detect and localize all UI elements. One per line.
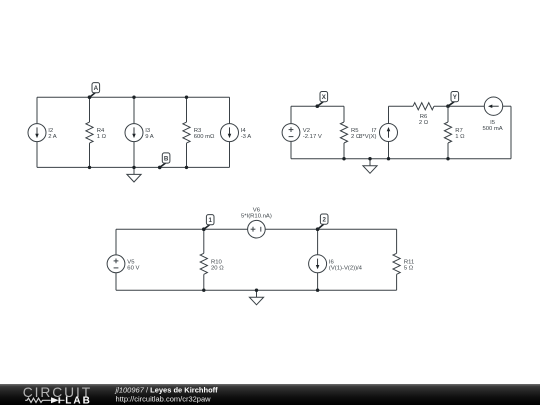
junction dots bottom rail (top-left) [88, 166, 188, 169]
label I2 value 2 A [48, 128, 57, 140]
junction dots bottom rail (bottom circuit) [202, 289, 319, 292]
svg-text:1 Ω: 1 Ω [455, 134, 465, 140]
wire: R7 branch leads [447, 106, 449, 159]
resistor R3 [183, 122, 190, 143]
svg-text:3*V(X): 3*V(X) [359, 134, 376, 140]
svg-text:500 mA: 500 mA [482, 126, 502, 132]
wire: I7 branch leads [388, 106, 390, 159]
current source I7 [380, 124, 398, 142]
label R6 value 2 Ω [419, 114, 429, 126]
CircuitLab logo [23, 385, 92, 405]
label V6 value 5*I(R10.nA) [241, 208, 272, 220]
wire: R3 branch leads [186, 97, 188, 167]
node X [316, 92, 328, 108]
junction dots top rail (top-left) [132, 96, 188, 99]
svg-text:(V(1)-V(2))/4: (V(1)-V(2))/4 [329, 265, 363, 271]
svg-text:20 Ω: 20 Ω [211, 265, 224, 271]
label R4 value 1 Ω [97, 128, 107, 140]
label R11 value 5 Ω [404, 259, 414, 271]
current source I3 [125, 124, 143, 142]
label R5 value 2 Ω [351, 128, 361, 140]
label I7 value 3*V(X) [359, 128, 376, 140]
wire: top rail of top-left circuit [37, 96, 230, 98]
ground (top-left circuit) [127, 167, 141, 182]
svg-text:9 A: 9 A [145, 134, 154, 140]
wire: I2 branch leads [36, 97, 38, 167]
current source I2 [28, 124, 46, 142]
wire: R5 branch leads [343, 106, 345, 159]
label R10 value 20 Ω [211, 259, 224, 271]
wire: I3 branch leads [133, 97, 135, 167]
svg-text:A: A [94, 85, 99, 92]
wire: top rail right of V6 [265, 228, 396, 230]
resistor R6 [413, 103, 434, 110]
svg-text:60 V: 60 V [127, 265, 139, 271]
resistor R4 [86, 122, 93, 143]
footer bar [0, 384, 540, 405]
label I4 value -3 A [241, 128, 252, 140]
wire: I4 branch leads [229, 97, 231, 167]
wire: bottom rail of top-right circuit [291, 158, 511, 160]
wire: top rail R6 to I5 [434, 105, 484, 107]
node 2 [316, 214, 328, 231]
node 1 [202, 215, 214, 231]
wire: V2 branch leads [290, 106, 292, 159]
title text [115, 385, 219, 403]
svg-text:http://circuitlab.com/cr32paw: http://circuitlab.com/cr32paw [116, 395, 212, 404]
svg-text:jl100967 / Leyes de Kirchhoff: jl100967 / Leyes de Kirchhoff [115, 385, 219, 394]
wire: top rail left of V6 [116, 228, 248, 230]
svg-text:-3 A: -3 A [241, 134, 252, 140]
wire: R10 branch leads [203, 229, 205, 290]
svg-text:LAB: LAB [65, 395, 92, 405]
wire: I5 to right edge and down [503, 106, 511, 159]
wire: R11 branch leads [396, 229, 398, 290]
svg-text:B: B [164, 155, 169, 162]
svg-text:2: 2 [322, 216, 326, 223]
resistor R7 [444, 122, 451, 143]
label V5 value 60 V [127, 259, 139, 271]
ground (bottom circuit) [249, 290, 263, 305]
label R7 value 1 Ω [455, 128, 465, 140]
wire: bottom rail of top-left circuit [37, 166, 230, 168]
label I3 value 9 A [145, 128, 154, 140]
node A [88, 83, 100, 99]
resistor R11 [393, 253, 400, 274]
svg-text:5 Ω: 5 Ω [404, 265, 414, 271]
wire: top rail I7 to R6 [389, 105, 414, 107]
svg-text:2 Ω: 2 Ω [419, 120, 429, 126]
svg-text:5*I(R10.nA): 5*I(R10.nA) [241, 214, 272, 220]
svg-text:-2.17 V: -2.17 V [303, 134, 322, 140]
voltage source V6 [248, 220, 266, 238]
current source I6 [309, 255, 327, 273]
label R3 value 600 mΩ [194, 128, 215, 140]
resistor R10 [200, 253, 207, 274]
wire: top rail V2 to R5 [291, 105, 344, 107]
svg-text:1: 1 [208, 217, 212, 224]
current source I4 [221, 124, 239, 142]
wire: R4 branch leads [89, 97, 91, 167]
wire: I6 branch leads [317, 229, 319, 290]
current source I5 [484, 97, 502, 115]
voltage source V2 [282, 124, 300, 142]
ground (top-right circuit) [363, 159, 377, 174]
svg-text:1 Ω: 1 Ω [97, 134, 107, 140]
wire: V5 branch leads [115, 229, 117, 290]
label I6 value (V(1)-V(2))/4 [329, 259, 363, 271]
label V2 value -2.17 V [303, 128, 322, 140]
junction dots bottom rail (top-right) [342, 157, 449, 160]
node B [158, 153, 170, 169]
wire: bottom rail of bottom circuit [116, 289, 397, 291]
voltage source V5 [107, 255, 125, 273]
svg-text:2 A: 2 A [48, 134, 57, 140]
resistor R5 [340, 122, 347, 143]
svg-text:600 mΩ: 600 mΩ [194, 134, 215, 140]
node Y [446, 92, 458, 108]
label I5 value 500 mA [482, 120, 502, 132]
